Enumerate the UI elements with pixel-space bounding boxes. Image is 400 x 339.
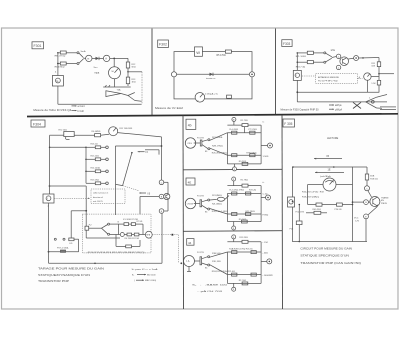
- svg-text:R18+R19 (2MΩs): R18+R19 (2MΩs): [302, 197, 319, 199]
- big meter uA: [113, 58, 115, 66]
- diode D: [92, 57, 96, 59]
- svg-text:R1.7KΩ: R1.7KΩ: [241, 179, 249, 181]
- wattmeter box W: [195, 47, 203, 56]
- meter top: [109, 127, 118, 136]
- svg-text:mμa: mμa: [95, 72, 100, 75]
- svg-text:←140KΩPF: ←140KΩPF: [262, 275, 274, 277]
- top node F: [232, 177, 236, 181]
- svg-text:TRANSISTOR PNP (CAS GAIN>50): TRANSISTOR PNP (CAS GAIN>50): [300, 262, 361, 265]
- dashed to column: [152, 234, 178, 236]
- node 2: [336, 65, 340, 69]
- resistor bottom: [227, 95, 232, 98]
- transistor in test: [370, 197, 380, 207]
- svg-text:F 305: F 305: [284, 122, 292, 126]
- resistor R13: [86, 182, 95, 184]
- svg-text:SPA: SPA: [146, 234, 151, 237]
- bottom bus with ticks: [114, 79, 116, 87]
- svg-text:1.5KΩ: 1.5KΩ: [263, 156, 269, 158]
- branch diagonals: [210, 252, 228, 257]
- svg-text:1KΩ: 1KΩ: [132, 82, 137, 84]
- output terminal: [261, 260, 267, 262]
- bridge row 2: [120, 233, 124, 237]
- switch fan 1/4s: [324, 52, 326, 54]
- svg-text:Ih: Ih: [118, 222, 120, 224]
- svg-text:R13.1KΩ: R13.1KΩ: [91, 179, 100, 181]
- block label 4E: [186, 178, 195, 185]
- svg-text:R4.7KΩ R17.5Ω: R4.7KΩ R17.5Ω: [125, 238, 140, 240]
- right rail: [260, 186, 262, 222]
- svg-text:...μA CH 703: ...μA CH 703: [197, 290, 224, 293]
- meter mA 1: [86, 55, 92, 61]
- output terminal: [261, 145, 267, 147]
- plug P2 on W1: [85, 226, 89, 230]
- resistor RELAY upper: [58, 52, 60, 54]
- wire left vertical: [57, 53, 59, 76]
- bottom bus 2: [297, 101, 387, 103]
- svg-text:REL.87 kΩ: REL.87 kΩ: [55, 56, 66, 58]
- wire B left down: [140, 196, 159, 198]
- svg-text:←C34: ←C34: [262, 242, 269, 244]
- right rail: [260, 125, 262, 164]
- block separator 1: [183, 168, 282, 171]
- wire to right: [110, 57, 128, 59]
- wire W1: [49, 185, 87, 187]
- svg-text:B1B: B1B: [370, 176, 375, 178]
- voltmeter: [195, 93, 205, 103]
- svg-text:TRANSI: TRANSI: [381, 196, 389, 199]
- top rail + resistor: [227, 124, 261, 126]
- svg-text:1.5K: 1.5K: [371, 83, 376, 85]
- IK bracket: [138, 151, 145, 153]
- svg-text:m: m: [87, 58, 89, 61]
- terminal E: [159, 209, 164, 214]
- svg-text:BU 6100: BU 6100: [147, 274, 156, 276]
- svg-text:R26+R8=17KΩL: R26+R8=17KΩL: [212, 152, 228, 154]
- svg-text:a Cont: a Cont: [78, 105, 86, 108]
- svg-text:R49.25Ω: R49.25Ω: [313, 209, 322, 211]
- svg-text:APPAREILS MESURE: APPAREILS MESURE: [318, 76, 339, 79]
- svg-text:R8.17 4Ω: R8.17 4Ω: [296, 67, 306, 69]
- svg-text:aW/μs: aW/μs: [335, 105, 342, 107]
- left rail: [226, 133, 228, 164]
- middle column left border: [182, 116, 185, 310]
- svg-text:TARAGE POUR MESURE DU GAIN: TARAGE POUR MESURE DU GAIN: [38, 266, 104, 270]
- resistor R12: [377, 80, 380, 85]
- svg-text:Sw.A: Sw.A: [81, 50, 87, 53]
- svg-text:F303: F303: [283, 42, 290, 46]
- wires up: [296, 53, 298, 71]
- svg-text:LECTURE: LECTURE: [327, 137, 339, 140]
- svg-text:R0 6M9Ω: R0 6M9Ω: [92, 131, 101, 133]
- branch to resistor stack: [50, 146, 86, 148]
- svg-text:R21,8MΩL: R21,8MΩL: [212, 195, 223, 197]
- bottom return wire: [57, 86, 59, 104]
- svg-text:10K: 10K: [371, 66, 375, 68]
- bridge bottom resistor: [115, 235, 117, 247]
- svg-text:Pts 50 PF MPs 770Ω: Pts 50 PF MPs 770Ω: [318, 80, 338, 83]
- dashed instrument box: [316, 74, 358, 84]
- resistor R15: [86, 158, 95, 160]
- galvanometer: [323, 178, 336, 191]
- svg-text:R1D,39Ω: R1D,39Ω: [212, 261, 221, 263]
- resistor R14: [86, 170, 95, 172]
- node left: [171, 72, 176, 77]
- resistor R12 vertical: [127, 58, 129, 62]
- svg-text:R1B 1Ω: R1B 1Ω: [370, 178, 378, 180]
- source box: [288, 197, 295, 207]
- generator circle CRG: [185, 138, 195, 148]
- plug P4: [194, 203, 200, 205]
- terminal B: [364, 200, 369, 205]
- oscillator oval: [217, 197, 224, 201]
- resistor P26: [337, 203, 343, 206]
- svg-text:R7L 10KΩ: R7L 10KΩ: [296, 56, 306, 58]
- wire to R11: [359, 57, 379, 60]
- dashed note box: [91, 189, 125, 204]
- svg-text:b Coll: b Coll: [78, 110, 85, 113]
- svg-text:R72.2Ω: R72.2Ω: [249, 189, 257, 191]
- svg-text:CRG: CRG: [187, 143, 192, 145]
- plug P4: [194, 142, 201, 144]
- svg-text:R16+R17+(P16) : R18: R16+R17+(P16) : R18: [302, 192, 325, 194]
- junction + wire right: [127, 68, 129, 77]
- top rail + resistor: [227, 185, 261, 187]
- bottom bus 1: [297, 91, 379, 93]
- svg-text:5KΩ: 5KΩ: [132, 66, 137, 68]
- svg-text:PIECE: PIECE: [381, 203, 388, 205]
- svg-text:unit J.B.70.: unit J.B.70.: [93, 200, 103, 203]
- terminal B: [159, 194, 164, 199]
- block label 4b: [186, 119, 196, 129]
- svg-text:R5 170Ω: R5 170Ω: [217, 55, 226, 57]
- node right: [249, 72, 254, 77]
- main horizontal divider: [27, 114, 398, 117]
- middle wire: [177, 73, 250, 75]
- resistor R1B top right: [366, 167, 368, 174]
- left rail: [226, 194, 228, 222]
- branch diagonals: [210, 209, 228, 215]
- top node F: [232, 117, 236, 121]
- resistor R13 vertical: [126, 77, 129, 84]
- svg-text:W: W: [196, 50, 200, 55]
- svg-text:1E: 1E: [328, 168, 331, 171]
- generator circle CRG1B: [185, 198, 195, 208]
- svg-text:selle inverseur et: selle inverseur et: [93, 192, 109, 195]
- svg-text:R2L,6MΩL: R2L,6MΩL: [212, 204, 223, 206]
- battery box L0: [52, 76, 63, 87]
- bridge row 1: [110, 223, 124, 225]
- svg-text:Mesure de l’Icbo D=VF4 Q4: Mesure de l’Icbo D=VF4 Q4: [33, 108, 72, 112]
- svg-text:P26.5Ω: P26.5Ω: [335, 209, 342, 211]
- panel label F301: [32, 42, 44, 49]
- switch wiper: [131, 152, 133, 154]
- bottom node F: [234, 164, 236, 167]
- svg-text:I K: I K: [145, 152, 148, 154]
- svg-text:R1.75Ω: R1.75Ω: [241, 120, 249, 122]
- svg-text:P4 1TB: P4 1TB: [197, 252, 204, 254]
- resistor R0: [95, 134, 101, 137]
- middle column right border: [281, 115, 284, 309]
- svg-text:μW/μA: μW/μA: [335, 108, 342, 111]
- svg-text:F302: F302: [159, 43, 167, 47]
- battery box L0: [293, 70, 301, 80]
- outer loop: [293, 167, 353, 242]
- top rail + resistor: [227, 241, 261, 243]
- top node F: [232, 235, 236, 239]
- panel label F302: [158, 40, 169, 48]
- svg-text:R14.100Ω: R14.100Ω: [91, 167, 101, 169]
- Y fixture transistor: [366, 97, 377, 102]
- svg-text:CIRCUIT POUR MESURE DU GAIN: CIRCUIT POUR MESURE DU GAIN: [300, 248, 352, 251]
- svg-text:R7.5Ω: R7.5Ω: [137, 221, 143, 223]
- svg-text:R+6.2KΩ 47KΩ: R+6.2KΩ 47KΩ: [230, 189, 245, 191]
- divider F301/F302: [151, 29, 153, 117]
- output terminal: [261, 197, 265, 199]
- svg-text:tension vz: tension vz: [206, 77, 215, 80]
- block separator 2: [184, 230, 283, 233]
- svg-text:I B: I B: [326, 155, 329, 158]
- inner meter loop: [308, 184, 323, 186]
- svg-text:P4 1TB: P4 1TB: [197, 138, 204, 140]
- resistor R6 lower: [58, 63, 60, 65]
- transistor fixture triangle: [106, 91, 121, 97]
- block label 4d: [187, 239, 194, 246]
- svg-text:R2N,17KΩL: R2N,17KΩL: [212, 146, 224, 148]
- transistor test socket: [164, 193, 170, 199]
- battery box: [43, 194, 54, 203]
- plug P4: [195, 260, 201, 262]
- svg-text:R11.2KΩ: R11.2KΩ: [239, 237, 248, 239]
- svg-text:P4 1TB: P4 1TB: [197, 195, 204, 197]
- bridge dashed box: [82, 214, 151, 253]
- svg-text:F301: F301: [34, 44, 42, 48]
- svg-text:I A: I A: [187, 260, 190, 263]
- svg-text:TRANSISTOR PNP: TRANSISTOR PNP: [38, 279, 69, 283]
- svg-text:S₁ pour IC₁₀₀ = 1mA: S₁ pour IC₁₀₀ = 1mA: [132, 268, 159, 271]
- svg-text:R11 74Ω.2KΩ: R11 74Ω.2KΩ: [119, 128, 132, 130]
- svg-text:CRG1B: CRG1B: [187, 203, 194, 205]
- resistor R7: [297, 52, 307, 54]
- panel label F305: [283, 119, 295, 127]
- svg-text:F.5KΩ: F.5KΩ: [263, 215, 269, 217]
- pot P16: [298, 205, 300, 222]
- svg-text:S₁ →→BASE 100: S₁ →→BASE 100: [192, 284, 229, 287]
- inner box: [115, 145, 161, 147]
- svg-text:44: 44: [188, 241, 192, 245]
- terminal C: [365, 186, 370, 191]
- svg-text:direction of: direction of: [93, 196, 103, 199]
- resistor R16: [86, 146, 95, 148]
- svg-text:VCC: VCC: [354, 217, 359, 219]
- divider F302/F303: [275, 29, 277, 116]
- svg-text:E₁: E₁: [132, 274, 134, 276]
- resistor R49: [316, 203, 322, 206]
- svg-text:0.150μA = 5v: 0.150μA = 5v: [205, 93, 219, 96]
- svg-text:←40Ω: ←40Ω: [262, 253, 268, 255]
- svg-text:4b: 4b: [188, 124, 192, 128]
- svg-text:Mesure de Vz EA2: Mesure de Vz EA2: [155, 106, 184, 110]
- left bus: [49, 135, 51, 194]
- bottom node F: [233, 283, 235, 287]
- terminal C: [159, 180, 164, 185]
- resistor R50: [314, 211, 321, 214]
- svg-text:P.32 1TB: P.32 1TB: [296, 212, 305, 214]
- node 4: [348, 57, 353, 60]
- SPA meter: [145, 231, 152, 238]
- svg-text:R6 470kΩ: R6 470kΩ: [55, 66, 65, 68]
- right rail: [260, 242, 262, 284]
- switch fan: [202, 140, 208, 142]
- svg-text:Mesure de F303 Capacité PNP 5: Mesure de F303 Capacité PNP 50: [281, 108, 320, 111]
- generator circle IA: [184, 256, 195, 267]
- svg-text:R16.1Ω: R16.1Ω: [91, 143, 99, 145]
- svg-text:(R16,R15,R14,R13,R12,R11,R9,R8: (R16,R15,R14,R13,R12,R11,R9,R8,R7,R5(2)): [88, 252, 145, 254]
- svg-text:RG, 50Ω: RG, 50Ω: [59, 130, 68, 132]
- wires C-E to socket: [164, 181, 168, 183]
- left battery down wire: [48, 203, 50, 263]
- panel label F304: [31, 120, 45, 127]
- svg-text:ICL 301Ω R7.70Ω: ICL 301Ω R7.70Ω: [123, 219, 139, 221]
- plug RG: [64, 132, 74, 137]
- svg-text:Sv.n: Sv.n: [94, 67, 98, 69]
- loop wire: [174, 52, 252, 99]
- switch fan: [202, 257, 208, 259]
- panel label F303: [282, 40, 292, 47]
- svg-text:(e=Ic/IB)μA: (e=Ic/IB)μA: [320, 175, 331, 178]
- resistor R5: [225, 50, 231, 53]
- svg-text:R26,P16=1,6KΩL: R26,P16=1,6KΩL: [212, 211, 229, 213]
- svg-text:STATIQUE SPECIFIQUE D’UN: STATIQUE SPECIFIQUE D’UN: [300, 255, 349, 258]
- meter 2: [99, 57, 103, 59]
- X mark: [353, 102, 361, 108]
- branch diagonals: [210, 133, 228, 141]
- node 1: [336, 54, 340, 58]
- switch S2A fan: [77, 52, 79, 54]
- svg-text:MBC 6100): MBC 6100): [145, 280, 156, 282]
- meter A: [371, 76, 379, 78]
- svg-text:4E: 4E: [188, 180, 192, 184]
- switch ED row: [70, 211, 72, 239]
- diode Vz: [210, 73, 214, 76]
- switch fan: [202, 200, 208, 202]
- svg-text:STATIQUE/DYNAMIQUE D’UN: STATIQUE/DYNAMIQUE D’UN: [38, 273, 90, 277]
- svg-text:T2A: T2A: [117, 89, 122, 92]
- resistor R11: [377, 62, 380, 67]
- transistor Q under test: [340, 57, 349, 66]
- left rail: [226, 252, 228, 283]
- top bus: [50, 134, 64, 136]
- svg-text:POT-1 5KΩL: POT-1 5KΩL: [57, 247, 70, 249]
- svg-text:12V: 12V: [355, 221, 359, 223]
- svg-text:I B: I B: [147, 193, 150, 195]
- svg-text:R15.10Ω: R15.10Ω: [91, 155, 100, 157]
- svg-text:F304: F304: [33, 122, 41, 126]
- terminal E: [364, 214, 369, 219]
- bottom node F: [233, 222, 235, 227]
- resistor R8: [297, 61, 307, 63]
- IB arrow: [139, 192, 146, 194]
- bottom bus: [49, 262, 163, 264]
